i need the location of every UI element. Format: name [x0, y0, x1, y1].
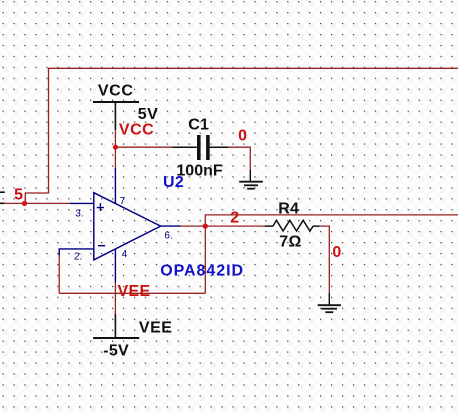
- op-amp U2 triangle: [94, 193, 161, 260]
- wire: feedback right vertical up to output junction (red): [204, 226, 206, 293]
- wire: net 5 junction to op-amp (red part): [25, 202, 71, 204]
- wire: pin 2 stub (navy): [59, 249, 94, 256]
- wire: input net 5 red to junction: [5, 202, 25, 204]
- wire: VCC net horizontal to C1 (red): [115, 146, 172, 148]
- svg-text:7: 7: [120, 196, 126, 207]
- wire: junction to R4 (red): [205, 225, 264, 227]
- resistor R4 zigzag: [273, 220, 313, 231]
- wire: feedback left vertical (red): [58, 256, 60, 294]
- VEE bar symbol: [93, 337, 139, 339]
- svg-text:6.: 6.: [164, 230, 172, 241]
- junction dot VCC node: [113, 145, 118, 150]
- wire: C1 to ground (red): [228, 147, 250, 170]
- ground symbol (0) near R4: [318, 305, 341, 312]
- wire: clipped stub at left edge (black): [0, 191, 5, 193]
- wire: input net 5 from left edge (black tip): [0, 202, 5, 204]
- op-amp minus sign: [98, 245, 105, 247]
- wire: VEE net vertical (red): [114, 283, 116, 315]
- wire: op-amp output stub pin 6 (navy): [161, 225, 181, 227]
- svg-text:7Ω: 7Ω: [279, 233, 301, 250]
- ground stub right (black): [328, 293, 330, 305]
- svg-text:VCC: VCC: [119, 122, 154, 139]
- wire: C1 right lead (black): [209, 146, 228, 148]
- wire: feedback bottom horizontal (red): [59, 292, 205, 294]
- svg-text:5: 5: [14, 187, 23, 204]
- svg-text:3.: 3.: [75, 209, 83, 220]
- wire: output to junction (red): [181, 225, 206, 227]
- svg-text:2: 2: [230, 209, 239, 226]
- ground symbol (0) near C1: [239, 182, 263, 189]
- svg-text:0: 0: [238, 128, 247, 145]
- wire: step from junction up to top rail: [25, 68, 458, 203]
- svg-text:VEE: VEE: [139, 320, 173, 337]
- wire: VCC net vertical (red): [114, 130, 116, 168]
- svg-text:VCC: VCC: [98, 83, 134, 100]
- svg-text:2.: 2.: [74, 252, 82, 263]
- wire: net 2 up and right to edge (red): [205, 215, 458, 226]
- VCC bar symbol: [93, 101, 139, 103]
- wire: R4 to ground (red): [320, 226, 330, 293]
- VEE symbol stub (black): [114, 314, 116, 338]
- VCC symbol stub (black): [114, 102, 116, 130]
- junction dot node 5: [22, 201, 27, 206]
- capacitor C1 plates: [199, 135, 208, 160]
- resistor R4 leads (black): [265, 225, 320, 227]
- ground stub (black): [249, 170, 251, 182]
- svg-text:VEE: VEE: [118, 283, 151, 300]
- svg-text:0: 0: [332, 244, 341, 261]
- svg-text:4: 4: [122, 249, 128, 260]
- svg-text:R4: R4: [278, 200, 299, 217]
- svg-text:5V: 5V: [138, 106, 159, 123]
- wire: pin 7 stub (navy): [114, 168, 116, 204]
- svg-text:U2: U2: [163, 174, 184, 191]
- svg-text:-5V: -5V: [103, 343, 129, 360]
- wire: C1 left lead (black): [172, 146, 197, 148]
- junction dot node 2 (output): [203, 224, 208, 229]
- svg-text:OPA842ID: OPA842ID: [160, 262, 244, 279]
- op-amp plus sign: [97, 203, 104, 211]
- svg-text:C1: C1: [188, 117, 209, 134]
- wire: pin 3 stub (navy): [70, 202, 94, 204]
- wire: pin 4 stub (navy): [114, 249, 116, 283]
